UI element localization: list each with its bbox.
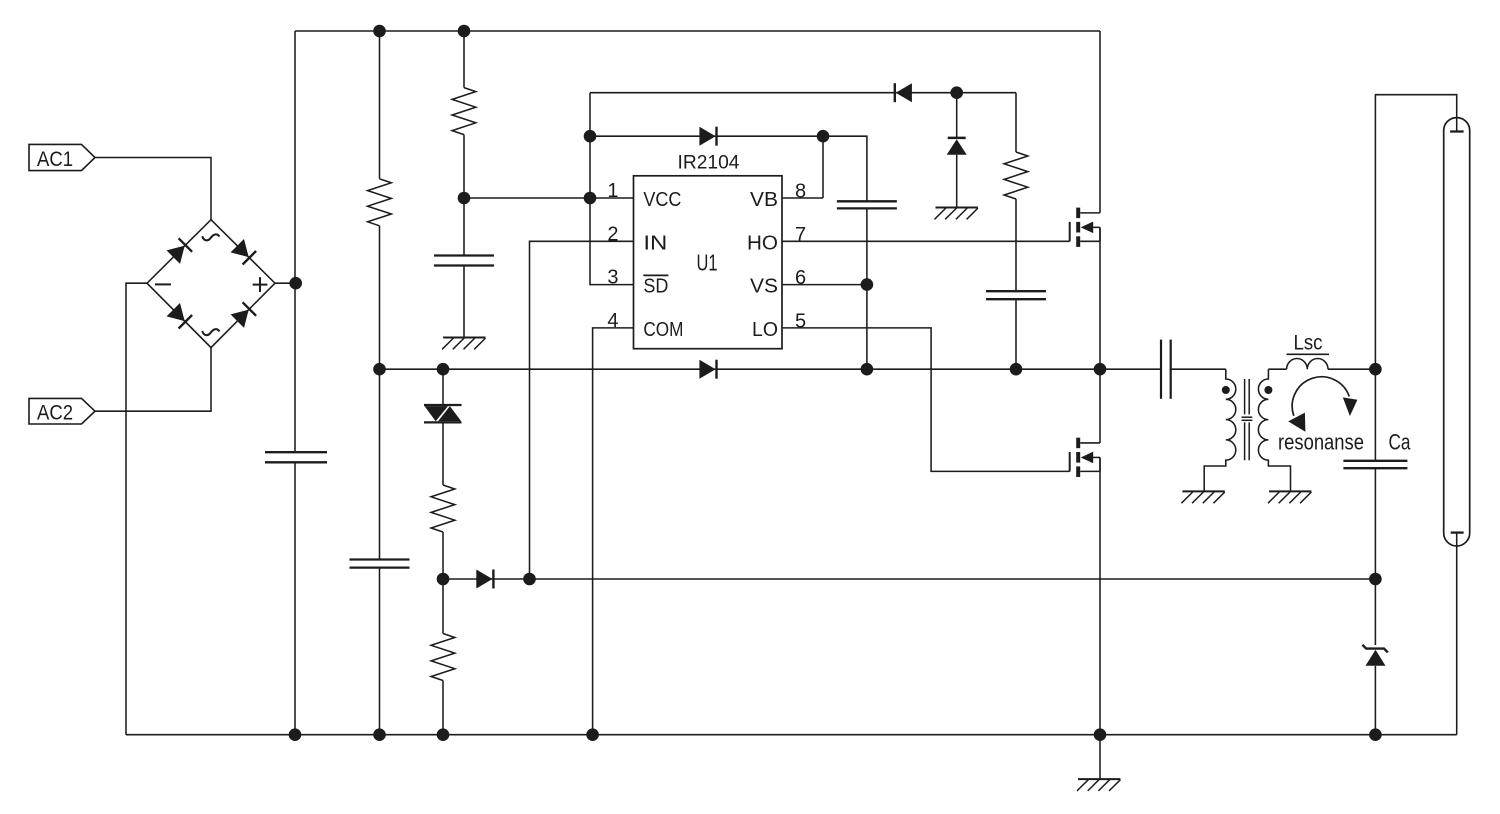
svg-text:COM: COM — [643, 319, 683, 341]
node ground bus C1 — [289, 728, 302, 741]
node SD rail VCC — [584, 192, 597, 205]
lamp bottom filament — [1451, 531, 1464, 533]
svg-text:AC1: AC1 — [37, 148, 73, 171]
wire VB drop — [822, 136, 824, 198]
wire DZ3 to ground bus — [1374, 666, 1376, 735]
svg-text:Lsc: Lsc — [1294, 331, 1323, 355]
svg-text:IR2104: IR2104 — [678, 153, 740, 174]
resistor R2 — [452, 88, 476, 135]
bridge diode D1 (upper left) — [167, 246, 185, 264]
node top bus R1 — [373, 25, 386, 38]
lamp tube — [1444, 118, 1470, 546]
svg-text:resonanse: resonanse — [1278, 430, 1364, 455]
wire C1 to ground bus — [294, 462, 296, 734]
wire aux to R3 — [1015, 93, 1017, 152]
bridge diode D2 (upper right) — [231, 239, 249, 257]
inductor Lsc — [1287, 359, 1328, 370]
bridge AC mark bottom — [202, 329, 219, 335]
wire R2 to VCC node — [463, 135, 465, 198]
svg-text:U1: U1 — [697, 249, 718, 275]
node ground bus Q2 — [1094, 728, 1107, 741]
svg-text:8: 8 — [795, 181, 806, 203]
bridge plus sign — [253, 284, 268, 286]
transformer T1 secondary polarity dot — [1264, 386, 1272, 394]
capacitor C2 (VCC bypass) — [434, 254, 494, 256]
bridge minus sign — [155, 283, 171, 285]
wire lamp node to lamp top — [1375, 95, 1456, 370]
resistor R4 — [431, 485, 455, 532]
connector AC1 — [29, 144, 95, 170]
wire lamp node to Ca — [1374, 369, 1376, 461]
wire Q1 drain to top bus — [1099, 31, 1101, 213]
wire R1 to mid rail — [379, 226, 381, 369]
svg-text:HO: HO — [747, 232, 778, 254]
wire pin 5 LO to gate — [782, 328, 1070, 472]
svg-text:SD: SD — [643, 276, 668, 298]
node mid rail Q1 — [1094, 363, 1107, 376]
ground G5 — [1078, 778, 1120, 780]
TVS suppressor DZ2 — [424, 404, 462, 406]
node VB tap — [817, 130, 830, 143]
wire R3 to C3 — [1015, 199, 1017, 291]
wire feedback line — [443, 578, 1375, 580]
wire pin 8 stub — [782, 197, 823, 199]
node mid rail VS — [861, 363, 874, 376]
bridge diode D4 (lower right) — [231, 310, 249, 328]
svg-text:1: 1 — [607, 180, 618, 202]
op-amp U1 IR2104 body — [634, 176, 783, 349]
wire VCC node to C2 — [463, 198, 465, 256]
node VS — [861, 278, 874, 291]
wire Lsc to lamp node — [1328, 368, 1375, 370]
svg-text:Ca: Ca — [1389, 430, 1412, 455]
wire AC1 to bridge top — [95, 158, 211, 220]
wire R4 to node — [442, 532, 444, 579]
svg-text:6: 6 — [795, 267, 806, 289]
wire pin 2 IN — [530, 241, 634, 579]
wire Ca to feedback node — [1374, 468, 1376, 579]
svg-text:IN: IN — [643, 232, 667, 254]
wire bridge minus output — [126, 283, 147, 735]
node ground bus C5 — [373, 728, 386, 741]
ground G1 — [443, 337, 485, 339]
svg-text:AC2: AC2 — [37, 402, 73, 425]
wire pin 7 HO to gate — [782, 240, 1070, 242]
connector AC2 — [29, 398, 95, 424]
wire C3 to mid rail — [1015, 299, 1017, 369]
node mid rail R1 — [373, 363, 386, 376]
node mid rail TVS — [437, 363, 450, 376]
node mid rail C3 — [1010, 363, 1023, 376]
node divider — [437, 573, 450, 586]
wire plus rail vertical — [294, 31, 296, 452]
svg-text:5: 5 — [795, 310, 806, 332]
transformer T1 core — [1244, 379, 1246, 414]
wire bottom ground bus — [126, 734, 1457, 736]
wire VCC node to pin 1 — [464, 197, 634, 199]
capacitor C4 (bootstrap) — [837, 200, 897, 202]
lamp top filament — [1450, 130, 1464, 132]
diode D8 (feedback) — [476, 570, 492, 589]
capacitor C5 — [350, 558, 410, 560]
node ground bus COM — [586, 728, 599, 741]
node plus rail — [289, 277, 302, 290]
wire mid rail — [380, 368, 1162, 370]
ground G2 — [936, 207, 978, 209]
node SD rail bootstrap — [584, 130, 597, 143]
wire pin 4 COM — [593, 328, 634, 735]
node top bus R2 — [458, 25, 471, 38]
svg-text:3: 3 — [607, 267, 618, 289]
node VCC — [458, 192, 471, 205]
wire node to R5 — [442, 579, 444, 634]
wire TVS to R4 — [442, 422, 444, 485]
capacitor C3 — [986, 290, 1046, 292]
capacitor C6 (DC block) — [1160, 340, 1162, 399]
wire C5 to ground bus — [379, 568, 381, 735]
diode D6 — [896, 83, 912, 102]
wire mid rail to TVS — [442, 369, 444, 405]
wire bootstrap feed — [590, 136, 867, 201]
diode D5 (bootstrap) — [699, 127, 715, 146]
resistor R3 — [1004, 152, 1028, 199]
wire C2 to ground — [463, 266, 465, 338]
svg-text:LO: LO — [752, 319, 778, 341]
svg-text:VCC: VCC — [643, 189, 681, 211]
wire AC2 to bridge bottom — [95, 348, 211, 412]
wire bridge plus output — [275, 282, 295, 284]
wire ground stub — [1099, 735, 1101, 779]
wire R5 to ground bus — [442, 681, 444, 735]
diode D7 (mid rail) — [699, 360, 715, 379]
capacitor Ca — [1343, 460, 1407, 462]
node lamp A — [1369, 363, 1382, 376]
wire C4 to VS — [866, 208, 868, 369]
wire mid rail to C5 — [379, 369, 381, 559]
node IN feedback — [523, 573, 536, 586]
resistor R1 — [368, 179, 392, 226]
wire top bus to R1 — [379, 31, 381, 179]
zener diode DZ1 — [948, 137, 966, 140]
wire DZ1 to ground — [956, 155, 958, 208]
wire top bus to R2 — [463, 31, 465, 88]
node ground bus DZ3 — [1369, 728, 1382, 741]
resistor R5 — [431, 634, 455, 681]
transformer T1 primary polarity dot — [1222, 386, 1230, 394]
capacitor C1 (bulk filter) — [265, 451, 327, 453]
zener diode DZ3 — [1362, 645, 1387, 653]
bridge AC mark top — [202, 234, 219, 240]
wire top supply bus — [295, 30, 1100, 32]
ground G4 — [1269, 490, 1311, 492]
wire Q2 source to ground bus — [1099, 457, 1101, 734]
transformer T1 primary — [1204, 369, 1236, 491]
wire node to DZ3 — [1374, 579, 1376, 645]
node ground bus R5 — [437, 728, 450, 741]
node zener tap — [950, 86, 963, 99]
bridge rectifier outline — [147, 220, 275, 348]
svg-text:7: 7 — [795, 224, 806, 246]
wire secondary to Lsc — [1268, 368, 1286, 370]
wire zener branch — [956, 93, 958, 138]
transformer T1 secondary — [1258, 369, 1290, 491]
bridge diode D3 (lower left) — [167, 303, 185, 321]
wire Q1 source to mid rail — [1099, 227, 1101, 369]
wire C6 to transformer — [1171, 368, 1226, 370]
wire pin 6 stub — [782, 284, 867, 286]
transistor Q2 (low side MOSFET) — [1069, 452, 1071, 471]
ground G3 — [1182, 490, 1224, 492]
node feedback right — [1369, 573, 1382, 586]
transistor Q1 (high side MOSFET) — [1069, 222, 1071, 241]
wire Q2 drain to mid rail — [1099, 369, 1101, 443]
wire SD rail vertical — [590, 93, 634, 285]
svg-text:VB: VB — [750, 189, 778, 211]
wire VCC aux top — [590, 92, 1016, 94]
resonance arrow — [1292, 377, 1349, 416]
svg-text:VS: VS — [750, 276, 778, 298]
